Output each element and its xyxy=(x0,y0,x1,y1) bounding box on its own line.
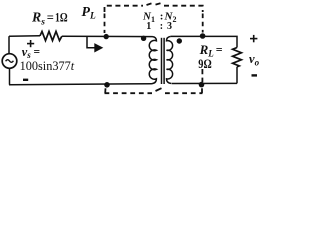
svg-text:=: = xyxy=(34,46,41,58)
minus sign source xyxy=(23,79,28,81)
label PL xyxy=(82,4,96,22)
transformer core lines xyxy=(162,38,165,84)
svg-text:3: 3 xyxy=(167,21,172,32)
power arrow PL xyxy=(87,37,103,53)
label vs = xyxy=(22,45,40,60)
svg-text:1Ω: 1Ω xyxy=(55,10,68,24)
wire top left horizontal xyxy=(9,35,40,37)
label RL = 9 ohm xyxy=(198,42,223,71)
wire bottom right horizontal xyxy=(172,82,237,84)
polarity dot secondary xyxy=(177,38,182,43)
svg-text:=: = xyxy=(47,10,54,24)
minus sign output xyxy=(252,74,258,76)
svg-text:100sin377t: 100sin377t xyxy=(20,59,75,73)
resistor RL xyxy=(233,48,242,67)
secondary winding L2 xyxy=(167,36,173,83)
svg-text:=: = xyxy=(216,42,223,56)
source vs circle xyxy=(2,54,17,69)
polarity dot primary xyxy=(141,36,146,41)
label vo xyxy=(249,52,260,68)
wire bottom left horizontal xyxy=(9,84,152,85)
dashed box bottom edge xyxy=(105,88,203,93)
label 100sin377t xyxy=(20,59,75,73)
dashed box right edge lower xyxy=(201,69,203,93)
wire left vertical xyxy=(8,36,11,84)
label N1 : N2 xyxy=(142,10,176,24)
dashed box top edge xyxy=(105,3,203,12)
label Rs = 1 ohm xyxy=(31,10,68,28)
svg-text:9Ω: 9Ω xyxy=(198,57,211,71)
node dot bottom-right of transformer box xyxy=(199,82,205,88)
node dot top-left of transformer box xyxy=(104,34,109,39)
wire top right horizontal xyxy=(171,36,237,47)
primary winding L1 xyxy=(149,37,156,84)
dashed box left edge upper xyxy=(104,14,106,34)
label 1 : 3 xyxy=(146,21,172,32)
resistor Rs xyxy=(40,31,62,40)
plus sign source xyxy=(27,40,34,47)
dashed box left edge lower stub xyxy=(104,88,106,93)
plus sign output xyxy=(250,35,257,42)
node dot bottom-left of transformer box xyxy=(104,82,110,88)
svg-text::: : xyxy=(160,21,163,32)
svg-text:1: 1 xyxy=(146,21,151,32)
dashed box right edge upper xyxy=(202,14,204,33)
wire top mid horizontal xyxy=(62,35,153,37)
node dot top-right of transformer box xyxy=(200,33,206,39)
wire right vertical lower xyxy=(236,67,238,84)
